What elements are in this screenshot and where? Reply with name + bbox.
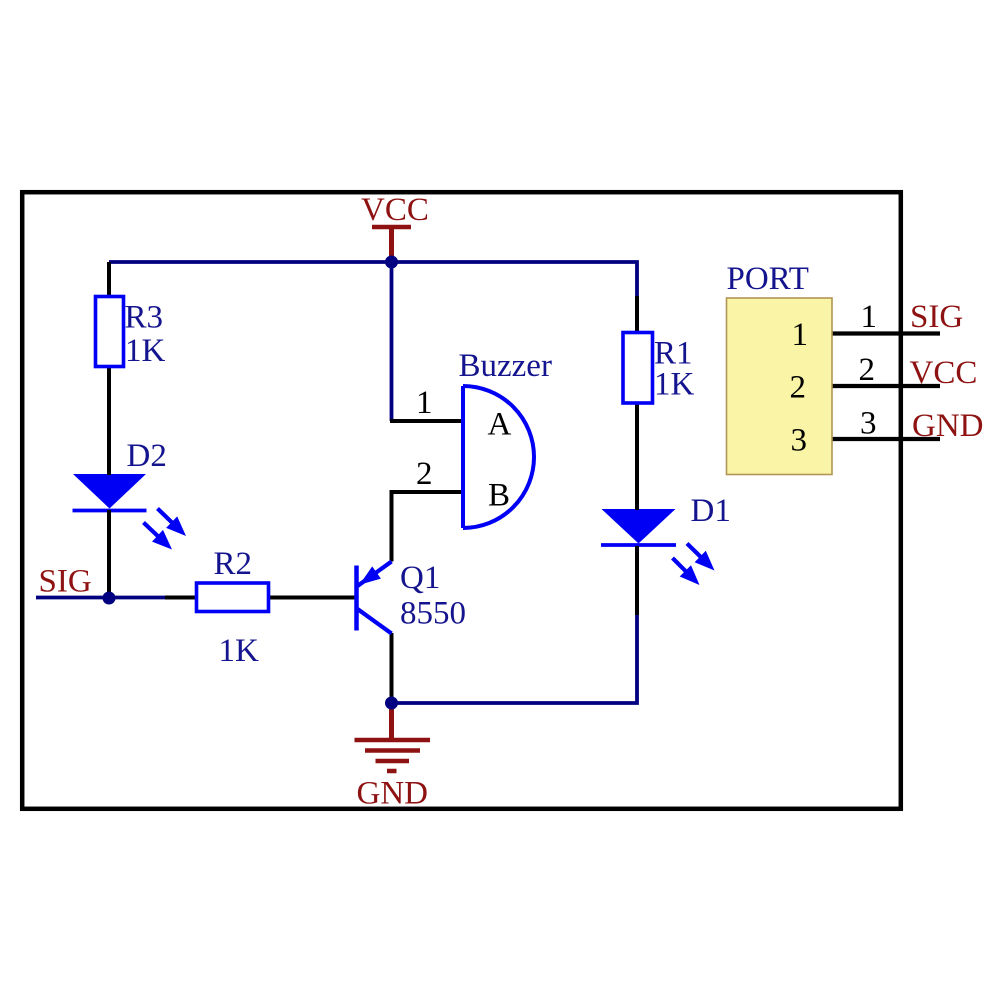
svg-text:VCC: VCC <box>361 192 429 228</box>
svg-text:GND: GND <box>357 776 429 812</box>
wire VCC net top horizontal <box>109 262 637 298</box>
ground symbol <box>355 703 431 771</box>
connector PORT body <box>727 298 833 475</box>
svg-text:SIG: SIG <box>910 299 963 335</box>
wire buzzer pin 2 to Q1 emitter <box>392 492 464 562</box>
wire VCC branch down to buzzer pin 1 <box>390 262 394 421</box>
border frame <box>22 192 901 809</box>
svg-text:R2: R2 <box>214 546 253 582</box>
node GND junction <box>385 697 398 710</box>
svg-text:D1: D1 <box>691 493 731 529</box>
svg-text:1: 1 <box>861 299 878 335</box>
svg-text:2: 2 <box>859 352 876 388</box>
svg-text:1K: 1K <box>125 333 166 369</box>
svg-text:1K: 1K <box>219 633 260 669</box>
svg-text:VCC: VCC <box>910 355 978 391</box>
power VCC symbol <box>372 227 411 262</box>
wire GND net bottom horizontal <box>391 614 637 703</box>
wire Q1 collector down <box>390 633 394 703</box>
svg-text:Q1: Q1 <box>400 560 440 596</box>
LED D1 <box>601 509 715 585</box>
wire D2 to SIG junction <box>107 510 111 598</box>
wire port pin 3 <box>831 437 940 441</box>
svg-text:1K: 1K <box>654 367 695 403</box>
svg-text:GND: GND <box>912 408 984 444</box>
svg-text:3: 3 <box>791 423 808 459</box>
wire SIG to R2 <box>165 596 197 600</box>
svg-text:PORT: PORT <box>727 261 809 297</box>
resistor R2 <box>197 583 269 612</box>
svg-text:3: 3 <box>860 406 877 442</box>
svg-text:8550: 8550 <box>400 596 466 632</box>
resistor R1 <box>623 333 653 404</box>
wire SIG net left <box>36 596 166 600</box>
wire R1 top lead <box>635 296 639 333</box>
svg-text:1: 1 <box>792 317 809 353</box>
wire port pin 2 <box>831 384 940 388</box>
resistor R3 <box>96 297 124 367</box>
node VCC junction <box>385 256 398 269</box>
wire D1 bottom lead <box>635 546 639 615</box>
wire buzzer pin 1 <box>390 419 463 423</box>
wire R1 to D1 <box>635 402 639 510</box>
buzzer LS1 body <box>463 386 534 528</box>
svg-text:Buzzer: Buzzer <box>459 348 552 384</box>
svg-text:SIG: SIG <box>39 564 92 600</box>
LED D2 <box>73 474 187 550</box>
wire R3 top lead <box>107 262 111 297</box>
wire port pin 1 <box>831 331 940 335</box>
svg-text:2: 2 <box>416 456 433 492</box>
transistor Q1 <box>357 562 392 634</box>
svg-text:A: A <box>488 407 512 443</box>
wire R3 to D2 <box>107 366 111 475</box>
svg-text:1: 1 <box>416 385 433 421</box>
svg-text:R3: R3 <box>125 300 164 336</box>
svg-text:B: B <box>488 478 510 514</box>
node SIG junction <box>103 592 116 605</box>
wire R2 to Q1 base <box>268 596 357 600</box>
svg-text:2: 2 <box>790 370 807 406</box>
svg-text:D2: D2 <box>127 438 167 474</box>
